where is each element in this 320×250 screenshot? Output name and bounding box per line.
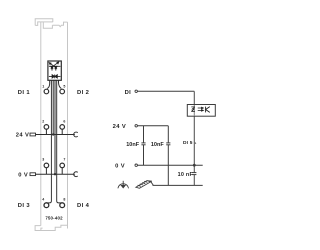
- wire bundle w2 to 24V rail: [52, 80, 54, 134]
- junction dot w2 on 24V rail: [52, 133, 54, 135]
- isolation flash symbol: [191, 107, 195, 112]
- LED emission arrows inside U1: [49, 62, 59, 67]
- svg-text:3: 3: [42, 158, 44, 162]
- wire bundle w3 to 0V rail: [54, 80, 56, 174]
- junction dot w3 on 0V rail: [54, 173, 56, 175]
- svg-text:6: 6: [63, 120, 65, 124]
- svg-text:DI: DI: [125, 90, 132, 96]
- svg-text:24 V: 24 V: [16, 132, 30, 138]
- svg-text:24 V: 24 V: [113, 124, 127, 130]
- svg-text:4: 4: [42, 197, 44, 201]
- K-bus K symbol: [206, 107, 210, 113]
- svg-text:DI 1: DI 1: [18, 90, 31, 96]
- wire pin6 from U1 to terminal 5: [59, 80, 62, 88]
- module housing right edge: [67, 22, 69, 228]
- svg-text:10nF: 10nF: [151, 142, 164, 148]
- terminal 4: [44, 203, 49, 208]
- wire 24V horizontal: [138, 125, 169, 127]
- svg-text:DI 2: DI 2: [77, 90, 89, 96]
- terminal 7: [60, 163, 65, 168]
- stem terminal 7 to 0V rail: [61, 168, 63, 175]
- earth electrode symbol: [118, 181, 129, 189]
- wire FE horizontal: [153, 184, 203, 186]
- module housing outline top profile: [35, 19, 67, 29]
- node DI input circle: [135, 90, 137, 92]
- isolation box with K-bus symbols: [187, 105, 215, 117]
- junction dot 0V to isolation vertical: [193, 164, 196, 167]
- terminal 8: [60, 203, 65, 208]
- 24V power jumper contact socket: [74, 132, 78, 137]
- 0V power jumper contact socket: [74, 172, 78, 177]
- svg-text:7: 7: [63, 158, 65, 162]
- terminal 5: [60, 89, 65, 94]
- svg-text:5: 5: [63, 84, 65, 88]
- anti-parallel LED pair inside U1: [49, 66, 61, 70]
- wire 0V horizontal: [138, 164, 203, 166]
- wire DI vertical through isolation: [193, 91, 195, 172]
- svg-text:0 V: 0 V: [115, 164, 125, 170]
- svg-text:0 V: 0 V: [18, 173, 28, 179]
- svg-text:10nF: 10nF: [126, 142, 139, 148]
- wire bundle w1 to terminal 4: [46, 80, 51, 203]
- svg-text:DI 3: DI 3: [18, 203, 31, 209]
- 0V power jumper contact blade: [30, 173, 36, 176]
- svg-text:DI 4: DI 4: [77, 203, 90, 209]
- wire DI horizontal: [138, 90, 195, 92]
- terminal 2: [44, 125, 49, 130]
- wire below capacitor C3 to FE: [193, 175, 195, 186]
- stem terminal 6 to 24V rail: [61, 129, 63, 134]
- capacitor C2 10nF branch: [166, 126, 170, 186]
- capacitor C3 10nF plates: [192, 173, 196, 175]
- suppressor diode inside U1: [49, 75, 61, 79]
- svg-text:10 nF: 10 nF: [178, 172, 194, 178]
- module housing bottom profile with foot: [35, 225, 67, 230]
- capacitor C1 10nF branch: [141, 126, 145, 165]
- svg-text:DI 5: DI 5: [183, 140, 193, 146]
- node 0V input circle: [135, 164, 137, 166]
- small arrow after DI 5: [195, 142, 197, 144]
- module housing left edge: [40, 22, 42, 226]
- input circuit box U1: [48, 61, 61, 80]
- svg-text:1: 1: [42, 84, 44, 88]
- terminal 1: [44, 89, 49, 94]
- wire bundle w4 to terminal 8: [57, 80, 63, 203]
- terminal 6: [60, 125, 65, 130]
- data arrows symbol: [198, 107, 204, 111]
- DIN rail contact symbol: [136, 181, 154, 189]
- 24V power jumper contact blade: [30, 133, 36, 136]
- stem terminal 3 to 0V rail: [45, 168, 47, 175]
- svg-text:2: 2: [42, 120, 44, 124]
- terminal 3: [44, 163, 49, 168]
- stem terminal 2 to 24V rail: [45, 129, 47, 134]
- svg-text:8: 8: [63, 197, 65, 201]
- 0V rail wire: [36, 173, 75, 175]
- svg-text:750-402: 750-402: [45, 216, 63, 221]
- node 24V input circle: [135, 125, 137, 127]
- wire pin1 from U1 to terminal 1: [47, 80, 50, 88]
- 24V rail wire: [36, 134, 75, 136]
